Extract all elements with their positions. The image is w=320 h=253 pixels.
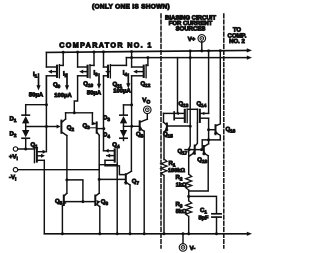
svg-text:Q2: Q2 — [67, 125, 75, 133]
wire Q13/Q14 gate bridge — [187, 108, 197, 110]
transistor Q15 — [163, 113, 165, 122]
junction dots V- rail — [61, 232, 64, 235]
wire gate column to node A — [189, 51, 191, 126]
transistor Q2 — [65, 113, 67, 119]
svg-text:COMPARATOR NO. 1: COMPARATOR NO. 1 — [59, 40, 152, 49]
svg-text:R2: R2 — [176, 174, 183, 182]
wire pair base bridge — [66, 112, 93, 114]
svg-text:+VI: +VI — [9, 154, 18, 162]
svg-text:Q14: Q14 — [197, 101, 207, 109]
wire V- rail — [44, 233, 247, 235]
wire Q2 emitter line to clamp — [26, 126, 47, 128]
svg-text:100μA: 100μA — [54, 92, 72, 99]
diode D2 — [22, 130, 29, 137]
wire -VI input — [18, 169, 100, 171]
svg-text:100μA: 100μA — [113, 87, 131, 94]
wire V- drop — [182, 234, 184, 244]
transistor Q14 — [196, 109, 198, 123]
svg-text:50μA: 50μA — [87, 89, 102, 96]
wire D3 to base line — [123, 123, 125, 126]
dashed partition line left — [160, 14, 162, 248]
transistor Q16 — [215, 125, 217, 134]
transistor Q6 — [94, 196, 96, 206]
wire R3 bottom — [188, 216, 190, 233]
wire D1-D2 mid — [25, 123, 27, 130]
svg-text:I1: I1 — [33, 71, 38, 79]
transistor Q11 — [103, 52, 105, 67]
svg-text:V+: V+ — [188, 36, 196, 43]
transistor Q10 — [77, 52, 79, 67]
resistor R2 — [186, 174, 192, 190]
wire Q12 gate riser — [146, 64, 148, 66]
svg-text:50μA: 50μA — [29, 91, 44, 98]
current arrow I3 — [98, 74, 100, 85]
svg-text:Q3: Q3 — [83, 122, 91, 130]
terminal VO — [144, 106, 152, 114]
svg-text:100kΩ: 100kΩ — [168, 167, 185, 174]
wire Q1 drain down — [43, 160, 45, 234]
svg-text:Q8: Q8 — [136, 131, 144, 139]
wire Q17 collector column — [195, 123, 198, 147]
wire cap branch — [189, 196, 217, 213]
svg-text:Q6: Q6 — [101, 199, 109, 207]
transistor Q3 — [91, 113, 93, 124]
terminal -VI — [13, 168, 17, 172]
wire R1 bottom — [163, 176, 165, 234]
wire V+ rail — [46, 50, 247, 52]
wire node A to R2 column — [189, 126, 191, 174]
svg-text:D1: D1 — [10, 116, 17, 124]
wire Q14 source to rail — [208, 51, 210, 114]
wire Q12 drain column — [131, 76, 133, 127]
svg-text:(ONLY ONE IS SHOWN): (ONLY ONE IS SHOWN) — [92, 4, 170, 11]
wire base line D3/D4 to Q8 — [124, 125, 140, 127]
wire Q8 emitter column — [143, 131, 145, 234]
diode D1 — [22, 116, 29, 123]
wire C1 bottom — [216, 217, 218, 234]
svg-text:VO: VO — [142, 97, 150, 106]
current arrow I4 — [127, 74, 129, 84]
svg-text:C1: C1 — [200, 207, 207, 215]
transistor Q18 — [203, 146, 205, 154]
svg-text:Q18: Q18 — [197, 157, 207, 165]
wire Q10 drain to pair bridge — [74, 76, 77, 113]
transistor Q5 — [63, 196, 65, 206]
wire D2 to +VI node — [25, 139, 27, 150]
svg-text:Q16: Q16 — [226, 126, 236, 134]
svg-text:SOURCES: SOURCES — [176, 25, 206, 32]
svg-text:Q10: Q10 — [83, 80, 93, 88]
current arrow I2 — [66, 74, 68, 86]
transistor Q1 — [33, 148, 35, 163]
svg-text:-VI: -VI — [9, 174, 16, 182]
svg-text:I3: I3 — [94, 70, 99, 78]
svg-text:5pF: 5pF — [199, 215, 210, 221]
wire Q18 emitter down — [189, 156, 209, 191]
svg-text:Q7: Q7 — [132, 178, 140, 186]
wire D4 stub — [123, 126, 125, 130]
wire Q4 drain staircase — [105, 160, 126, 174]
wire Q4 gate from -VI — [98, 165, 100, 170]
transistor Q12 — [131, 52, 133, 67]
svg-text:R1: R1 — [169, 160, 176, 168]
wire Q7 collector column — [130, 126, 133, 171]
wire Q5 emitter column — [61, 206, 63, 234]
dashed partition line right — [223, 14, 225, 248]
svg-text:Q5: Q5 — [55, 198, 63, 206]
transistor Q8 — [146, 114, 148, 119]
svg-text:1kΩ: 1kΩ — [176, 181, 187, 188]
svg-text:Q9: Q9 — [53, 82, 61, 90]
wire bias source drop left — [177, 58, 179, 114]
svg-text:I4: I4 — [123, 70, 128, 78]
wire Q15 base line — [168, 125, 190, 127]
wire R2 to R3 — [188, 190, 190, 201]
wire mirror bridge — [65, 178, 68, 181]
wire I3 column to Q4 — [103, 76, 105, 151]
wire Q18 collector column — [208, 140, 210, 144]
capacitor C1 — [212, 213, 221, 215]
svg-text:V-: V- — [190, 245, 196, 252]
svg-text:D2: D2 — [10, 130, 17, 138]
wire gate bias bus — [126, 57, 247, 59]
svg-text:Q12: Q12 — [141, 81, 151, 89]
wire Q14 drain to Q16 base — [208, 118, 210, 130]
diode D3 — [120, 116, 127, 123]
resistor R3 — [186, 201, 192, 217]
node A dot — [189, 125, 192, 128]
svg-text:Q4: Q4 — [112, 142, 120, 150]
svg-text:Q1: Q1 — [31, 141, 39, 149]
transistor Q13 — [173, 112, 175, 120]
terminal V- — [179, 244, 187, 252]
transistor Q9 — [45, 52, 47, 67]
wire Q7 emitter column — [129, 185, 131, 234]
svg-text:NO. 2: NO. 2 — [229, 38, 245, 45]
wire Q15 emitter to R1 — [163, 132, 165, 160]
wire +VI input — [18, 148, 35, 150]
wire gate bus riser — [125, 58, 127, 66]
svg-text:R3: R3 — [176, 201, 183, 209]
transistor Q4 — [116, 148, 118, 163]
wire I1 column to Q1 — [45, 76, 47, 152]
wire Q15 collector feed — [164, 112, 175, 114]
resistor R1 — [161, 159, 167, 176]
junction dots V+ rail — [62, 51, 65, 54]
terminal +VI — [13, 147, 17, 151]
svg-text:5kΩ: 5kΩ — [176, 208, 187, 215]
terminal V+ — [198, 35, 206, 43]
current arrow I1 — [38, 74, 40, 86]
wire D3-D4 top connector — [124, 104, 132, 106]
wire Q4 gate column — [116, 163, 118, 234]
transistor Q7 — [125, 174, 127, 183]
wire Q16 emitter to base node — [202, 140, 220, 150]
wire Q3 collector column — [98, 135, 100, 193]
wire D1-D2 top connector — [45, 76, 47, 105]
transistor Q17 — [194, 146, 196, 154]
diode D4 — [120, 130, 127, 137]
svg-text:Q13: Q13 — [179, 101, 189, 109]
svg-text:I2: I2 — [63, 71, 68, 79]
wire V+ drop — [201, 42, 203, 51]
junction dots gate bus — [130, 56, 133, 59]
wire Q2 collector column — [66, 136, 68, 194]
